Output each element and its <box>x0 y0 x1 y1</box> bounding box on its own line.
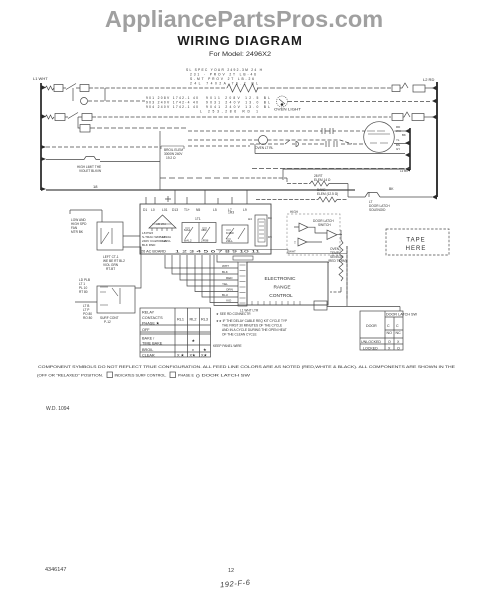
svg-text:RL2: RL2 <box>190 318 197 322</box>
lamp oven lt relay <box>259 136 268 145</box>
TAPE HERE text <box>406 238 427 253</box>
svg-text:C: C <box>396 324 399 328</box>
label motor right pins <box>396 125 406 151</box>
svg-text:X: X <box>397 340 400 344</box>
wire row E to motor <box>250 143 366 145</box>
label broil elem right <box>314 174 331 182</box>
svg-text:OFF: OFF <box>142 328 150 332</box>
TAPE HERE box <box>386 229 449 255</box>
svg-text:L5: L5 <box>213 208 217 212</box>
wire row G vertical links <box>255 144 283 180</box>
svg-text:D13: D13 <box>172 208 178 212</box>
label bake elem <box>317 188 338 196</box>
wire row D to motor <box>188 130 366 132</box>
svg-text:(OFF OR "RELAXED" POSITION.: (OFF OR "RELAXED" POSITION. <box>37 373 103 378</box>
wire row G <box>283 168 405 170</box>
box A4 <box>413 85 425 92</box>
fuse box A1 <box>54 85 63 92</box>
svg-text:For Model: 2496X2: For Model: 2496X2 <box>209 51 272 58</box>
svg-text:TAPE: TAPE <box>406 238 425 244</box>
left mid branch wire <box>70 210 102 222</box>
svg-text:1R3: 1R3 <box>228 211 234 215</box>
wire color labels <box>222 264 233 303</box>
svg-text:RELAY: RELAY <box>142 311 155 315</box>
resistor broil <box>310 181 329 186</box>
svg-text:OF THE CLEAN CYCLE: OF THE CLEAN CYCLE <box>222 333 257 337</box>
svg-text:192-F-6: 192-F-6 <box>220 578 251 590</box>
label below fan box <box>103 255 125 271</box>
svg-text:L2 BK: L2 BK <box>400 169 408 173</box>
svg-text:MA2: MA2 <box>184 228 191 232</box>
svg-text:L1 WHT: L1 WHT <box>33 76 48 81</box>
wire row A right <box>257 87 391 89</box>
surf conn text <box>79 278 90 294</box>
svg-text:29LL: 29LL <box>226 239 233 243</box>
svg-text:BK: BK <box>402 133 406 137</box>
wire fan box right <box>123 236 141 288</box>
svg-text:D1: D1 <box>143 208 147 212</box>
svg-text:BK: BK <box>389 187 394 191</box>
text block spec mid <box>146 96 270 114</box>
svg-text:BROIL: BROIL <box>142 348 153 352</box>
ERC text <box>265 276 296 299</box>
svg-text:WHT: WHT <box>222 264 229 268</box>
oven temp sensor zigzag <box>339 230 343 292</box>
svg-text:120VL: 120VL <box>162 239 171 243</box>
box C5 <box>80 125 90 133</box>
switch A <box>66 84 76 90</box>
wire door latch to L2 <box>380 196 432 198</box>
junction arrows on L1 bus <box>41 85 46 191</box>
svg-text:PHASE E: PHASE E <box>178 373 194 378</box>
AC board top pin labels inside <box>143 208 247 212</box>
relay RL2 block <box>182 223 216 243</box>
svg-text:NO: NO <box>387 331 393 335</box>
svg-text:K4B0: K4B0 <box>226 231 234 235</box>
relay table text <box>142 311 208 358</box>
svg-text:HIGH: HIGH <box>290 210 299 214</box>
switch start sw <box>285 140 299 147</box>
svg-text:24L 7402A 76.2 BL: 24L 7402A 76.2 BL <box>190 82 258 86</box>
footnote square 2 <box>170 372 176 378</box>
svg-text:C: C <box>387 324 390 328</box>
svg-text:904 240V 1742-1 40: 904 240V 1742-1 40 <box>146 105 198 109</box>
footnote square 1 <box>107 372 113 378</box>
wire ERC top feed <box>216 250 347 254</box>
svg-text:MTR BK: MTR BK <box>71 230 84 234</box>
switch C <box>68 113 78 119</box>
op-amp U1 <box>299 223 308 232</box>
svg-text:YL: YL <box>396 138 400 142</box>
svg-text:BLK: BLK <box>222 270 229 274</box>
op-amp U2 <box>298 238 307 246</box>
label door latch switch <box>313 219 334 227</box>
box A2 <box>80 85 89 92</box>
AC board top pins <box>146 190 247 204</box>
svg-text:WIRING DIAGRAM: WIRING DIAGRAM <box>177 33 302 48</box>
ERC box <box>247 262 328 305</box>
wires AC board to ERC connector <box>165 255 238 306</box>
door latch table <box>360 311 403 350</box>
label broil elem block <box>161 146 184 149</box>
svg-text:2R08: 2R08 <box>201 239 209 243</box>
svg-text:LOCKED: LOCKED <box>363 347 378 351</box>
svg-text:T: T <box>294 241 296 245</box>
svg-text:HERE: HERE <box>406 246 427 252</box>
svg-text:NC: NC <box>396 331 402 335</box>
svg-text:O: O <box>397 347 400 351</box>
svg-text:★★ IF THE DELAY CABLE REQ KIT: ★★ IF THE DELAY CABLE REQ KIT CYCLE TYP <box>216 319 287 323</box>
svg-text:VIOLET BLK/W: VIOLET BLK/W <box>79 169 101 173</box>
box A3 <box>392 85 400 92</box>
svg-text:X★: X★ <box>201 354 208 358</box>
svg-text:SOLENOID: SOLENOID <box>369 208 386 212</box>
svg-text:CONTACTS: CONTACTS <box>142 316 163 320</box>
relay contacts table <box>140 308 211 357</box>
wire broil row y178 <box>240 178 310 184</box>
svg-text:T1+: T1+ <box>184 208 190 212</box>
svg-text:★ SEE RD CONNECTR: ★ SEE RD CONNECTR <box>216 312 251 316</box>
svg-text:N5: N5 <box>196 208 200 212</box>
svg-text:DOOR: DOOR <box>366 324 377 328</box>
switch A right thermal <box>400 83 408 88</box>
svg-text:L2 RD: L2 RD <box>423 77 434 82</box>
text block spec top <box>186 68 263 86</box>
door latch sw symbol <box>348 192 380 197</box>
wire to L2 <box>425 87 434 89</box>
wire after resistor <box>329 184 348 198</box>
svg-text:BAKE /: BAKE / <box>142 337 155 341</box>
svg-text:YEL: YEL <box>222 282 228 286</box>
svg-text:O: O <box>388 340 391 344</box>
box C1 <box>55 114 65 121</box>
svg-text:L 253,286 RD 1: L 253,286 RD 1 <box>200 110 258 114</box>
svg-text:SWITCH: SWITCH <box>318 223 331 227</box>
surf cont box <box>97 286 135 313</box>
wire row D2 oven lt relay <box>188 140 352 144</box>
svg-text:1T1: 1T1 <box>195 217 201 221</box>
svg-text:ELECTRONIC: ELECTRONIC <box>265 276 296 282</box>
AC board box <box>140 204 271 254</box>
wires op-amps <box>294 227 342 242</box>
svg-text:26 AC BOARD: 26 AC BOARD <box>141 250 166 254</box>
ERC bottom inner pins <box>252 301 300 305</box>
relay id labels <box>195 211 234 222</box>
resistor bake element <box>227 84 258 92</box>
junction arrows x410 <box>405 129 410 172</box>
svg-text:★: ★ <box>192 339 196 343</box>
lamp oven light <box>277 96 288 107</box>
svg-text:★: ★ <box>203 348 207 352</box>
svg-text:RT-BT: RT-BT <box>106 267 115 271</box>
svg-text:P-12: P-12 <box>104 320 111 324</box>
label fan motor <box>71 218 87 234</box>
svg-text:D8: D8 <box>268 216 272 220</box>
motor M1 <box>364 122 395 153</box>
transformer T1 <box>149 215 176 228</box>
wire into surf box <box>75 301 97 303</box>
wire motor exits <box>394 131 410 144</box>
svg-text:DOOR LATCH SW: DOOR LATCH SW <box>386 313 418 317</box>
svg-text:AND IN A CYCLE DURING THE OPEN: AND IN A CYCLE DURING THE OPEN HEAT <box>222 328 287 332</box>
label transformer <box>142 231 172 247</box>
svg-text:X ★: X ★ <box>177 354 185 358</box>
svg-text:903 240V 1742-4 40: 903 240V 1742-4 40 <box>146 101 198 105</box>
svg-text:L0: L0 <box>151 208 155 212</box>
relay RL3 block <box>222 225 248 243</box>
svg-text:CLEAR: CLEAR <box>142 354 155 358</box>
svg-text:RL1: RL1 <box>177 318 184 322</box>
svg-text:S-MT PROV 2T LB-26: S-MT PROV 2T LB-26 <box>190 77 254 81</box>
relay RL3 connector <box>255 215 267 246</box>
svg-text:18: 18 <box>93 184 98 189</box>
junction arrows on L2 bus <box>432 86 437 200</box>
svg-text:PHASE ★: PHASE ★ <box>142 322 160 326</box>
box C2 <box>82 114 92 121</box>
switch C right thermal <box>403 112 410 117</box>
svg-text:INDICATES SURF CONTROL.: INDICATES SURF CONTROL. <box>115 373 167 378</box>
wire branch to pilot <box>73 88 105 101</box>
svg-text:BLU: BLU <box>222 293 228 297</box>
svg-text:12: 12 <box>228 568 234 574</box>
svg-text:VIO: VIO <box>226 299 232 303</box>
ERC bottom connector <box>314 301 327 310</box>
svg-text:RANGE: RANGE <box>273 285 290 291</box>
fan switch box <box>97 222 123 250</box>
connector bracket <box>233 256 253 260</box>
notes right of relay table <box>213 312 287 348</box>
wire rows mid right <box>252 168 410 170</box>
dashed module outline <box>287 214 340 255</box>
svg-text:v: v <box>192 348 194 352</box>
svg-text:H4: H4 <box>248 217 252 221</box>
wire row J main <box>46 189 355 191</box>
svg-text:RL3: RL3 <box>201 318 208 322</box>
thermostat bump <box>80 157 100 160</box>
wire row H <box>46 146 160 148</box>
wire row D3 <box>188 145 250 147</box>
wire row A <box>63 87 227 89</box>
svg-text:901 208V 1742-1 40: 901 208V 1742-1 40 <box>146 96 198 100</box>
wire row 199 <box>256 199 348 201</box>
svg-text:ORN: ORN <box>226 288 233 292</box>
svg-text:AppliancePartsPros.com: AppliancePartsPros.com <box>105 6 383 32</box>
capacitor symbols row D <box>320 128 336 134</box>
svg-text:(RED TERM): (RED TERM) <box>328 259 347 263</box>
svg-text:WHT: WHT <box>289 250 296 254</box>
label sensor <box>328 247 347 263</box>
wire row B <box>88 100 145 102</box>
svg-text:4B0: 4B0 <box>201 228 207 232</box>
label door latch sw <box>369 200 390 212</box>
svg-text:4346147: 4346147 <box>45 567 66 573</box>
svg-text:1 2 3 4 5 6 7 8 9 10 11: 1 2 3 4 5 6 7 8 9 10 11 <box>175 250 261 254</box>
wire L1 bus <box>40 83 42 190</box>
wire C to L2 <box>424 116 434 118</box>
capacitor row E <box>326 141 337 147</box>
door latch table text <box>361 313 418 351</box>
motor inner text <box>367 131 390 143</box>
wire row C5 right <box>90 127 188 129</box>
wire row C <box>65 116 391 118</box>
svg-text:RED: RED <box>226 276 233 280</box>
svg-text:COMPONENT SYMBOLS DO NOT REFLE: COMPONENT SYMBOLS DO NOT REFLECT TRUE CO… <box>38 364 455 369</box>
box C4 <box>412 114 424 121</box>
svg-text:RT 80: RT 80 <box>79 290 88 294</box>
svg-text:L9: L9 <box>243 208 247 212</box>
svg-text:UNLOCKED: UNLOCKED <box>361 340 381 344</box>
surf labels2 <box>83 304 119 324</box>
svg-text:9011 208V 12.5 BL: 9011 208V 12.5 BL <box>206 96 270 100</box>
wire row B right <box>288 101 432 103</box>
lamp pilot <box>81 98 88 105</box>
wire row F <box>255 153 405 155</box>
svg-text:TIME BAKE: TIME BAKE <box>142 342 163 346</box>
svg-text:OVEN LIGHT: OVEN LIGHT <box>274 108 301 112</box>
svg-text:ELEM (12.5 Ω): ELEM (12.5 Ω) <box>317 192 338 196</box>
svg-text:231 - PROV 2T LB-46: 231 - PROV 2T LB-46 <box>190 73 256 77</box>
svg-text:AB WH: AB WH <box>156 222 166 226</box>
ERC connector strip <box>238 262 247 306</box>
svg-text:THE FIRST 30 MINUTES OF THE CY: THE FIRST 30 MINUTES OF THE CYCLE <box>222 324 282 328</box>
wire vertical x160 <box>159 131 161 190</box>
pin cross symbol <box>165 196 171 202</box>
svg-text:W.D. 1094: W.D. 1094 <box>46 406 70 412</box>
wire row I with thermostat <box>46 160 160 162</box>
svg-text:SL SPEC YOUR 2492-3M 24 H: SL SPEC YOUR 2492-3M 24 H <box>186 68 263 72</box>
wire vertical bus x410 <box>409 128 411 170</box>
svg-text:BAL2: BAL2 <box>184 239 192 243</box>
svg-text:ELEM 14 Ω: ELEM 14 Ω <box>314 178 331 182</box>
svg-text:BLK RND: BLK RND <box>142 243 156 247</box>
svg-text:9031 240V 13.0 BL: 9031 240V 13.0 BL <box>206 101 270 105</box>
svg-text:9041 240V 13.0 BL: 9041 240V 13.0 BL <box>206 105 270 109</box>
svg-text:X★: X★ <box>190 354 197 358</box>
svg-text:GY: GY <box>396 147 400 151</box>
wire ERC to door table <box>238 246 400 311</box>
svg-text:D9: D9 <box>268 235 272 239</box>
svg-text:KEEP PANEL WIRE: KEEP PANEL WIRE <box>213 344 242 348</box>
svg-text:() DOOR LATCH SW: () DOOR LATCH SW <box>196 373 250 378</box>
wire branch row C down <box>78 117 80 128</box>
svg-text:L01: L01 <box>162 208 168 212</box>
svg-text:OVEN LT RL: OVEN LT RL <box>255 146 274 150</box>
wire sensor down <box>330 246 347 300</box>
op-amp U3 <box>327 230 337 240</box>
svg-text:19.2 Ω: 19.2 Ω <box>166 156 176 160</box>
wire L2 bus <box>436 82 438 197</box>
svg-text:RO 80: RO 80 <box>83 316 92 320</box>
svg-text:CONTROL: CONTROL <box>269 293 293 299</box>
box C3 <box>392 114 403 121</box>
resistor bake2 <box>318 197 337 202</box>
